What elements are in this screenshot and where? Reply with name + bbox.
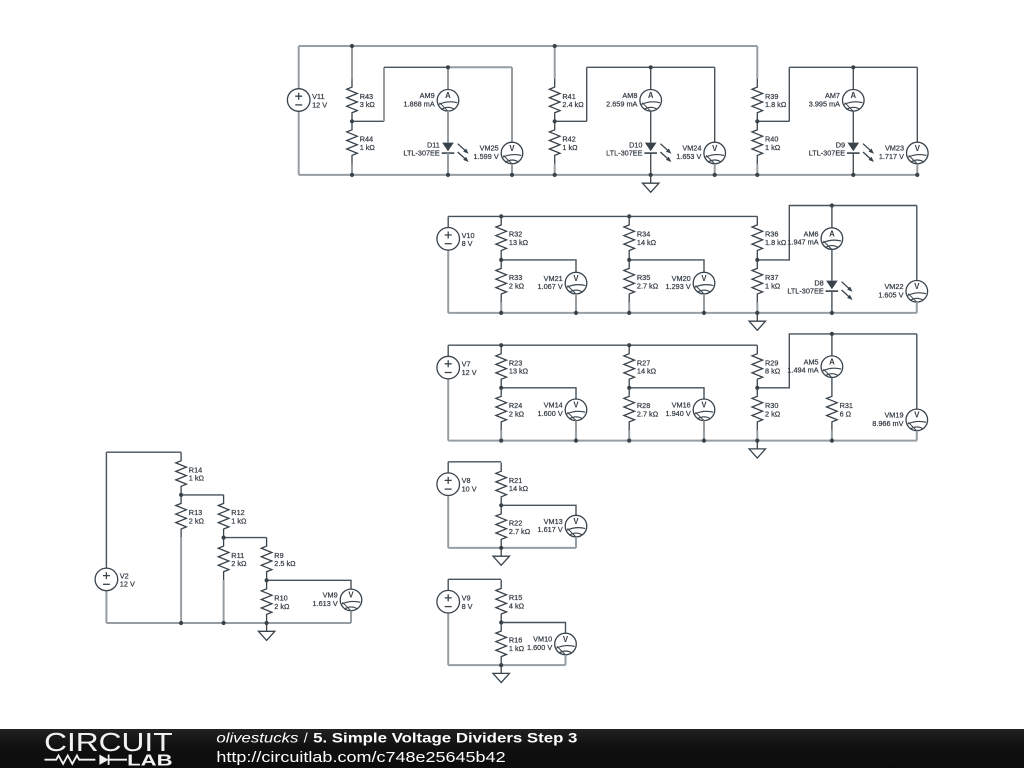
- svg-text:13 kΩ: 13 kΩ: [509, 238, 529, 247]
- LED D9: [809, 140, 874, 162]
- svg-text:2 kΩ: 2 kΩ: [189, 516, 205, 525]
- wire LED branch top rail right: [853, 66, 917, 68]
- junction: [649, 173, 653, 177]
- wire VM25 feed: [511, 67, 513, 142]
- svg-text:2 kΩ: 2 kΩ: [509, 409, 525, 418]
- junction: [851, 173, 855, 177]
- resistor R39: [752, 79, 787, 122]
- svg-text:LTL-307EE: LTL-307EE: [787, 287, 824, 296]
- wire R41 top stub: [554, 46, 556, 79]
- junction: [446, 173, 450, 177]
- wire VM22 bottom stub: [916, 302, 918, 313]
- resistor R29: [752, 345, 781, 388]
- ground V2 ladder: [258, 623, 274, 640]
- resistor R33: [496, 260, 525, 303]
- wire V10 top stub: [447, 216, 449, 227]
- svg-text:V: V: [914, 282, 920, 291]
- LED D10: [606, 140, 671, 162]
- resistor R24: [496, 388, 525, 431]
- junction: [755, 386, 759, 390]
- svg-text:1.293 V: 1.293 V: [666, 282, 691, 291]
- svg-text:1 kΩ: 1 kΩ: [231, 516, 247, 525]
- resistor R41: [549, 79, 584, 122]
- wire R35 bottom stub: [628, 303, 630, 313]
- wire D9 cathode to ground rail: [852, 153, 854, 175]
- svg-text:12 V: 12 V: [462, 368, 477, 377]
- svg-text:A: A: [829, 229, 835, 238]
- ground row4: [493, 548, 509, 565]
- junction: [499, 343, 503, 347]
- svg-text:2.7 kΩ: 2.7 kΩ: [509, 527, 531, 536]
- svg-text:4 kΩ: 4 kΩ: [509, 601, 525, 610]
- wire node B to R9: [224, 537, 267, 539]
- wire R31 bottom stub: [831, 431, 833, 441]
- svg-text:2.4 kΩ: 2.4 kΩ: [562, 100, 584, 109]
- wire AM8 feed: [650, 67, 652, 89]
- svg-text:V: V: [701, 401, 707, 410]
- junction: [830, 439, 834, 443]
- svg-text:2 kΩ: 2 kΩ: [509, 281, 525, 290]
- wire LED branch top rail right: [651, 66, 715, 68]
- junction: [755, 119, 759, 123]
- svg-text:1 kΩ: 1 kΩ: [765, 281, 781, 290]
- svg-text:1.600 V: 1.600 V: [538, 409, 563, 418]
- wire R42 bottom stub: [554, 164, 556, 175]
- wire divider tap riser: [586, 67, 588, 121]
- svg-text:V: V: [348, 591, 354, 600]
- wire divider tap to VM13: [501, 505, 576, 515]
- footer black bar: [0, 729, 1024, 768]
- svg-text:8 V: 8 V: [462, 239, 473, 248]
- junction: [755, 258, 759, 262]
- wire LED branch top rail left: [587, 66, 651, 68]
- wire AM9 feed: [447, 67, 449, 89]
- wire top rail row5 (V9+): [448, 578, 501, 580]
- junction: [553, 44, 557, 48]
- LED D11: [403, 140, 468, 162]
- wire top rail row2 (V10+): [448, 215, 757, 217]
- svg-text:14 kΩ: 14 kΩ: [509, 484, 529, 493]
- svg-text:3 kΩ: 3 kΩ: [360, 100, 376, 109]
- svg-text:1 kΩ: 1 kΩ: [765, 143, 781, 152]
- junction: [755, 173, 759, 177]
- junction: [499, 214, 503, 218]
- wire bottom rail V2 ladder (ground net): [106, 622, 351, 624]
- junction: [446, 65, 450, 69]
- junction: [499, 546, 503, 550]
- wire AM7 to D9: [852, 111, 854, 143]
- svg-text:2 kΩ: 2 kΩ: [274, 602, 290, 611]
- voltmeter VM20: [666, 272, 715, 294]
- wire V11 top stub: [298, 46, 300, 89]
- junction: [499, 386, 503, 390]
- junction: [649, 65, 653, 69]
- junction: [499, 620, 503, 624]
- svg-text:1.617 V: 1.617 V: [538, 525, 563, 534]
- svg-text:LAB: LAB: [127, 752, 172, 768]
- ground row2: [749, 313, 765, 330]
- resistor R11: [218, 538, 247, 581]
- junction: [350, 119, 354, 123]
- svg-text:10 V: 10 V: [462, 485, 477, 494]
- svg-text:2 kΩ: 2 kΩ: [765, 409, 781, 418]
- junction: [350, 173, 354, 177]
- svg-text:1.868 mA: 1.868 mA: [403, 99, 434, 108]
- svg-text:2.5 kΩ: 2.5 kΩ: [274, 559, 296, 568]
- wire LED branch top rail left: [789, 66, 853, 68]
- junction: [222, 536, 226, 540]
- junction: [574, 311, 578, 315]
- junction: [179, 621, 183, 625]
- svg-text:1.613 V: 1.613 V: [313, 599, 338, 608]
- wire divider tap to VM14: [501, 388, 576, 399]
- wire R24 bottom stub: [500, 431, 502, 441]
- resistor R30: [752, 388, 781, 431]
- svg-text:8.966 mV: 8.966 mV: [872, 419, 903, 428]
- junction: [553, 173, 557, 177]
- ground row1: [643, 175, 659, 192]
- wire node C to VM9: [267, 580, 351, 589]
- wire LED branch top rail left: [384, 66, 448, 68]
- wire divider tap riser: [788, 67, 790, 121]
- svg-text:1.717 V: 1.717 V: [879, 152, 904, 161]
- wire V9 top stub: [447, 579, 449, 590]
- resistor R21: [496, 463, 529, 506]
- junction: [510, 173, 514, 177]
- voltmeter VM9: [313, 589, 362, 611]
- junction: [830, 311, 834, 315]
- wire VM23 feed: [916, 67, 918, 142]
- wire R39 top stub: [756, 46, 758, 79]
- svg-text:1.940 V: 1.940 V: [666, 409, 691, 418]
- svg-text:3.995 mA: 3.995 mA: [809, 99, 840, 108]
- wire divider tap horizontal: [757, 120, 789, 122]
- wire D11 cathode to ground rail: [447, 153, 449, 175]
- resistor R27: [624, 345, 657, 388]
- wire AM7 feed: [852, 67, 854, 89]
- svg-text:8 kΩ: 8 kΩ: [765, 367, 781, 376]
- resistor R9: [261, 538, 296, 581]
- wire R40 bottom stub: [756, 164, 758, 175]
- wire AM6 feed: [831, 206, 833, 228]
- resistor R44: [347, 121, 376, 164]
- CircuitLab logo resistor-diode glyph: [45, 755, 128, 765]
- voltmeter VM10: [527, 633, 576, 655]
- svg-text:LTL-307EE: LTL-307EE: [809, 149, 846, 158]
- junction: [222, 621, 226, 625]
- junction: [574, 439, 578, 443]
- wire LED branch top rail right: [448, 66, 512, 68]
- wire VM14 bottom stub: [575, 421, 577, 441]
- voltage source V10: [437, 228, 475, 251]
- wire VM22 feed: [916, 206, 918, 281]
- resistor R37: [752, 260, 781, 303]
- svg-text:1.494 mA: 1.494 mA: [787, 366, 818, 375]
- junction: [755, 439, 759, 443]
- resistor R36: [752, 216, 787, 259]
- resistor R31: [827, 388, 853, 431]
- junction: [627, 311, 631, 315]
- wire VM25 bottom stub: [511, 164, 513, 175]
- svg-text:14 kΩ: 14 kΩ: [637, 367, 657, 376]
- wire divider tap to VM10: [501, 623, 565, 634]
- junction: [265, 578, 269, 582]
- resistor R13: [176, 495, 205, 538]
- svg-text:olivestucks: olivestucks: [216, 731, 298, 747]
- junction: [627, 439, 631, 443]
- svg-text:5. Simple Voltage Dividers Ste: 5. Simple Voltage Dividers Step 3: [313, 731, 577, 747]
- wire divider tap to VM20: [629, 260, 704, 272]
- junction: [179, 493, 183, 497]
- svg-text:V: V: [573, 517, 579, 526]
- svg-text:V: V: [915, 144, 921, 153]
- svg-text:8 V: 8 V: [462, 602, 473, 611]
- voltmeter VM14: [538, 399, 587, 421]
- svg-text:1 kΩ: 1 kΩ: [360, 143, 376, 152]
- svg-text:14 kΩ: 14 kΩ: [637, 238, 657, 247]
- junction: [499, 663, 503, 667]
- junction: [627, 258, 631, 262]
- wire V11 bottom stub: [298, 111, 300, 175]
- resistor R42: [549, 121, 578, 164]
- svg-text:/: /: [304, 731, 308, 747]
- junction: [553, 119, 557, 123]
- svg-text:1.653 V: 1.653 V: [676, 152, 701, 161]
- svg-text:2.7 kΩ: 2.7 kΩ: [637, 409, 659, 418]
- svg-text:V: V: [563, 635, 569, 644]
- ground row5: [493, 665, 509, 682]
- wire VM23 bottom stub: [916, 164, 918, 175]
- resistor R43: [347, 79, 376, 122]
- wire R36/R37 tap to AM6 branch: [757, 206, 917, 260]
- wire V2 bottom stub: [105, 591, 107, 623]
- wire AM6 to D8: [831, 249, 833, 280]
- resistor R12: [218, 495, 247, 538]
- junction: [627, 214, 631, 218]
- wire bottom rail row3 (ground net): [448, 440, 917, 442]
- svg-text:1.8 kΩ: 1.8 kΩ: [765, 238, 787, 247]
- junction: [350, 44, 354, 48]
- voltage source V11: [287, 89, 327, 112]
- ammeter AM7: [809, 90, 864, 112]
- wire divider tap horizontal: [555, 120, 587, 122]
- wire AM9 to D11: [447, 111, 449, 143]
- wire V9 bottom stub: [447, 613, 449, 665]
- wire AM5 feed: [831, 334, 833, 356]
- svg-text:1.600 V: 1.600 V: [527, 643, 552, 652]
- wire R44 bottom stub: [351, 164, 353, 175]
- svg-text:1.605 V: 1.605 V: [878, 290, 903, 299]
- LED D8: [787, 278, 852, 300]
- resistor R34: [624, 216, 657, 259]
- wire VM10 bottom stub: [565, 655, 567, 665]
- wire bottom rail row5 (ground net): [448, 664, 565, 666]
- voltmeter VM25: [474, 142, 523, 164]
- wire R11 tail: [223, 580, 225, 623]
- wire R37 bottom stub: [756, 303, 758, 313]
- junction: [499, 258, 503, 262]
- wire VM13 bottom stub: [575, 537, 577, 548]
- wire VM9 bottom stub: [350, 611, 352, 623]
- svg-text:1.599 V: 1.599 V: [474, 152, 499, 161]
- junction: [915, 173, 919, 177]
- ammeter AM6: [787, 228, 842, 250]
- resistor R15: [496, 580, 525, 623]
- wire R28 bottom stub: [628, 431, 630, 441]
- voltmeter VM13: [538, 515, 587, 537]
- svg-text:LTL-307EE: LTL-307EE: [606, 149, 643, 158]
- wire top rail row4 (V8+): [448, 461, 501, 463]
- voltage source V7: [437, 356, 477, 379]
- junction: [830, 332, 834, 336]
- junction: [265, 621, 269, 625]
- wire V2 top stub: [105, 452, 107, 568]
- junction: [627, 386, 631, 390]
- wire VM19 feed: [916, 334, 918, 409]
- resistor R28: [624, 388, 659, 431]
- svg-text:V: V: [573, 401, 579, 410]
- svg-text:V: V: [712, 144, 718, 153]
- wire AM8 to D10: [650, 111, 652, 143]
- junction: [499, 503, 503, 507]
- wire bottom rail row4 (ground net): [448, 547, 576, 549]
- junction: [830, 203, 834, 207]
- resistor R10: [261, 580, 290, 623]
- resistor R32: [496, 216, 529, 259]
- voltmeter VM22: [878, 281, 927, 303]
- svg-text:1 kΩ: 1 kΩ: [562, 143, 578, 152]
- voltmeter VM23: [879, 142, 928, 164]
- junction: [713, 173, 717, 177]
- svg-text:2.7 kΩ: 2.7 kΩ: [637, 281, 659, 290]
- wire divider tap to VM21: [501, 260, 576, 272]
- junction: [851, 65, 855, 69]
- junction: [702, 311, 706, 315]
- wire R30 bottom stub: [756, 431, 758, 441]
- wire V7 bottom stub: [447, 379, 449, 441]
- voltmeter VM21: [538, 272, 587, 294]
- voltmeter VM19: [872, 409, 927, 431]
- wire divider tap to VM16: [629, 388, 704, 399]
- wire VM24 bottom stub: [714, 164, 716, 175]
- wire V8 top stub: [447, 462, 449, 473]
- wire VM16 bottom stub: [703, 421, 705, 441]
- svg-text:13 kΩ: 13 kΩ: [509, 367, 529, 376]
- wire D8 cathode to ground rail: [831, 291, 833, 313]
- wire top rail V2 ladder: [106, 451, 181, 453]
- svg-text:1.8 kΩ: 1.8 kΩ: [765, 100, 787, 109]
- ammeter AM9: [403, 90, 458, 112]
- svg-text:1 kΩ: 1 kΩ: [189, 474, 205, 483]
- junction: [499, 311, 503, 315]
- voltage source V9: [437, 590, 473, 613]
- resistor R35: [624, 260, 659, 303]
- svg-text:V: V: [701, 274, 707, 283]
- junction: [755, 311, 759, 315]
- wire bottom rail row1 (ground net): [299, 174, 918, 176]
- wire VM24 feed: [714, 67, 716, 142]
- wire V7 top stub: [447, 345, 449, 356]
- wire V10 bottom stub: [447, 250, 449, 313]
- svg-text:A: A: [648, 91, 654, 100]
- wire VM20 bottom stub: [703, 294, 705, 313]
- wire AM5 to R31: [831, 378, 833, 388]
- svg-text:6 Ω: 6 Ω: [840, 409, 852, 418]
- svg-text:V: V: [509, 144, 515, 153]
- svg-text:2 kΩ: 2 kΩ: [231, 559, 247, 568]
- ammeter AM8: [606, 90, 661, 112]
- ammeter AM5: [787, 356, 842, 378]
- wire R33 bottom stub: [500, 303, 502, 313]
- svg-text:12 V: 12 V: [312, 100, 327, 109]
- wire V8 bottom stub: [447, 496, 449, 548]
- wire R29/R30 tap to AM5 branch: [757, 334, 917, 388]
- svg-text:1.947 mA: 1.947 mA: [787, 238, 818, 247]
- wire VM19 bottom stub: [916, 431, 918, 441]
- wire node A to R12: [181, 494, 224, 496]
- svg-text:http://circuitlab.com/c748e256: http://circuitlab.com/c748e25645b42: [216, 750, 505, 766]
- junction: [627, 343, 631, 347]
- wire divider tap horizontal: [352, 120, 384, 122]
- ground row3: [749, 441, 765, 458]
- junction: [499, 439, 503, 443]
- svg-text:12 V: 12 V: [120, 580, 135, 589]
- svg-text:1 kΩ: 1 kΩ: [509, 644, 525, 653]
- resistor R16: [496, 623, 525, 666]
- voltmeter VM16: [666, 399, 715, 421]
- wire VM21 bottom stub: [575, 294, 577, 313]
- svg-text:A: A: [445, 91, 451, 100]
- wire top rail row1 (V11+): [299, 45, 758, 47]
- svg-text:V: V: [914, 411, 920, 420]
- svg-text:A: A: [829, 358, 835, 367]
- voltmeter VM24: [676, 142, 725, 164]
- wire bottom rail row2 (ground net): [448, 312, 917, 314]
- svg-text:2.659 mA: 2.659 mA: [606, 99, 637, 108]
- junction: [702, 439, 706, 443]
- resistor R14: [176, 452, 205, 495]
- wire top rail row3 (V7+): [448, 344, 757, 346]
- resistor R22: [496, 505, 531, 548]
- svg-text:V: V: [573, 274, 579, 283]
- svg-text:1.067 V: 1.067 V: [538, 282, 563, 291]
- wire D10 cathode to ground rail: [650, 153, 652, 175]
- svg-text:A: A: [850, 91, 856, 100]
- wire R13 tail: [180, 538, 182, 623]
- wire divider tap riser: [383, 67, 385, 121]
- resistor R40: [752, 121, 781, 164]
- resistor R23: [496, 345, 529, 388]
- svg-text:LTL-307EE: LTL-307EE: [403, 149, 440, 158]
- wire R43 top stub: [351, 46, 353, 79]
- voltage source V8: [437, 473, 477, 496]
- voltage source V2: [95, 568, 135, 591]
